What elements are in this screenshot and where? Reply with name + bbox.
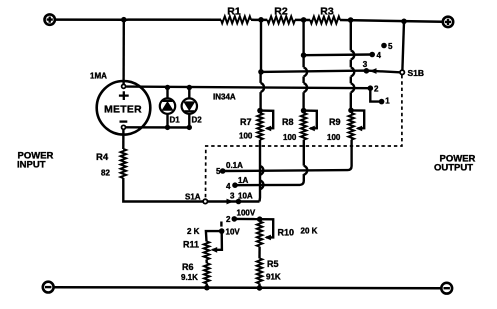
terminal - power input (bottom left) — [43, 282, 54, 293]
svg-text:R9: R9 — [329, 117, 341, 127]
diode D2 — [182, 85, 203, 130]
switch S1B contact 2 — [368, 84, 380, 93]
resistor R3 — [310, 5, 340, 23]
svg-text:IN34A: IN34A — [213, 93, 236, 102]
wire R10 to R5 — [258, 247, 261, 259]
svg-text:100: 100 — [283, 133, 297, 142]
node rail tap C (after R3) — [348, 17, 354, 23]
svg-text:D2: D2 — [192, 116, 203, 125]
node rail-meter junction — [121, 17, 127, 23]
switch S1B pole — [400, 21, 424, 78]
svg-text:INPUT: INPUT — [17, 160, 46, 171]
wire rail to meter — [122, 20, 125, 87]
rheostat R10 — [257, 216, 318, 246]
wire contact 2 to contact 1 — [370, 88, 381, 101]
wire meter - to diodes bottom — [126, 126, 192, 129]
terminal + power input — [45, 14, 55, 24]
switch S1A contact 4 + 1A line — [226, 174, 304, 191]
svg-text:R11: R11 — [183, 240, 199, 250]
svg-text:100V: 100V — [237, 209, 256, 218]
svg-text:D1: D1 — [170, 116, 181, 125]
wire bottom rail — [54, 287, 441, 288]
svg-text:2 K: 2 K — [187, 227, 200, 236]
svg-text:R8: R8 — [282, 117, 294, 127]
svg-text:0.1A: 0.1A — [226, 161, 243, 170]
svg-text:3: 3 — [363, 60, 368, 69]
svg-text:5: 5 — [216, 167, 221, 176]
switch S1B contact 5 — [381, 42, 393, 51]
svg-text:R7: R7 — [240, 117, 252, 127]
svg-text:4: 4 — [377, 51, 382, 60]
terminal - power output (bottom right) — [441, 283, 452, 294]
switch S1B contact 3 — [363, 60, 370, 74]
svg-text:100: 100 — [239, 132, 253, 141]
svg-text:20 K: 20 K — [301, 227, 318, 236]
svg-text:S1A: S1A — [185, 193, 201, 202]
diode D1 — [160, 85, 180, 130]
wire 3-line (S1B wiper) — [261, 68, 400, 74]
rheostat R9 — [327, 108, 364, 143]
svg-text:3: 3 — [230, 192, 235, 201]
svg-text:R3: R3 — [320, 5, 334, 17]
wire tap B down (to R8, node 4-line) — [304, 20, 307, 110]
node 4-line junction — [301, 52, 307, 58]
op meter M1 — [90, 72, 150, 135]
switch S1B contact 4 — [369, 51, 381, 60]
svg-text:82: 82 — [101, 169, 110, 178]
svg-text:R2: R2 — [274, 5, 288, 17]
svg-text:1A: 1A — [238, 176, 248, 185]
svg-text:1: 1 — [385, 97, 390, 106]
wire R4 to S1A pole — [123, 178, 203, 202]
wire 4-line (S1B contact 4) — [304, 53, 373, 56]
svg-text:R10: R10 — [278, 228, 295, 238]
node R5-rail — [257, 285, 263, 291]
svg-text:R1: R1 — [227, 5, 241, 17]
svg-text:91K: 91K — [266, 273, 281, 282]
wire R5 to rail — [258, 284, 260, 288]
svg-text:S1B: S1B — [408, 68, 425, 78]
svg-text:METER: METER — [104, 104, 142, 115]
svg-text:100: 100 — [327, 133, 341, 142]
svg-text:2: 2 — [374, 84, 379, 93]
node 3-line junction — [258, 69, 264, 75]
wire R6 to rail — [206, 284, 208, 288]
svg-text:10V: 10V — [226, 228, 241, 237]
rheostat R8 — [282, 108, 317, 142]
svg-text:R5: R5 — [267, 259, 279, 269]
svg-text:5: 5 — [388, 42, 393, 51]
resistor R5 — [257, 258, 281, 283]
wire R8 bottom with hop — [304, 140, 307, 175]
wire S1A wiper to contact 3 (10A) — [208, 192, 260, 205]
node rail tap A (after R1) — [258, 17, 264, 23]
svg-text:R6: R6 — [182, 262, 194, 272]
wire 10A line up to R7 — [260, 140, 264, 202]
svg-text:1MA: 1MA — [90, 72, 107, 81]
wire tap C down (to R9) — [351, 20, 354, 110]
resistor R6 — [181, 260, 210, 284]
node S1A contact 3 — [236, 199, 242, 205]
svg-text:9.1K: 9.1K — [181, 273, 198, 282]
label POWER INPUT — [17, 151, 54, 171]
node rail tap B (after R2) — [301, 17, 307, 23]
node R6-rail — [204, 285, 210, 291]
wire meter - down — [122, 130, 124, 149]
terminal + power output — [443, 17, 453, 27]
resistor R4 — [96, 149, 126, 178]
switch S1A contact 5 + 0.1A line — [216, 140, 352, 176]
dashed gang link S1B-S1A — [206, 75, 402, 199]
svg-text:10A: 10A — [238, 192, 253, 201]
svg-text:R4: R4 — [96, 152, 109, 163]
label POWER OUTPUT — [434, 154, 476, 174]
svg-text:2: 2 — [226, 215, 231, 224]
rheostat R11 — [183, 227, 222, 260]
rheostat R7 — [239, 108, 273, 141]
svg-text:OUTPUT: OUTPUT — [434, 163, 473, 174]
wire top rail — [55, 20, 442, 22]
node 100V (contact 2 tap) — [226, 209, 260, 225]
resistor R1 — [221, 5, 251, 23]
resistor R2 — [267, 5, 295, 23]
wire node-2 line (meter + to S1B contact 2) — [126, 87, 370, 89]
switch S1B contact 1 — [379, 97, 390, 106]
node rail-S1B junction — [401, 19, 407, 25]
switch S1A pole — [185, 193, 208, 204]
svg-text:4: 4 — [226, 182, 231, 191]
wire tap A down (R1/R2 node to R7, node 3-line) — [261, 20, 264, 110]
node 10V (contact 1 tap) — [219, 222, 240, 237]
